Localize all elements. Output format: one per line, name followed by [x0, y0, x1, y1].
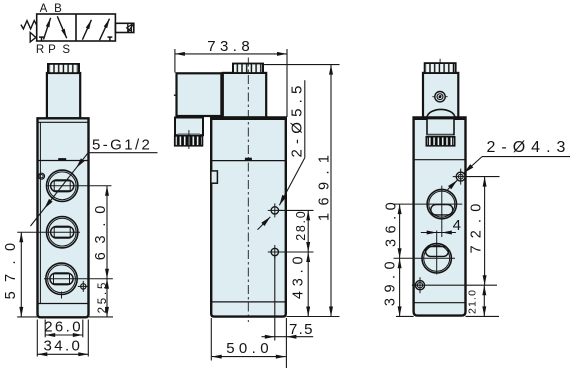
svg-text:P: P	[48, 44, 56, 56]
svg-text:28.0: 28.0	[294, 210, 308, 241]
svg-text:7.5: 7.5	[289, 321, 314, 338]
svg-text:A: A	[40, 3, 48, 15]
svg-text:50.0: 50.0	[226, 340, 273, 357]
svg-text:34.0: 34.0	[44, 338, 83, 355]
svg-text:2-Ø4.3: 2-Ø4.3	[487, 139, 572, 156]
svg-text:72.0: 72.0	[469, 196, 485, 253]
svg-text:39.0: 39.0	[382, 256, 398, 306]
svg-text:63.0: 63.0	[93, 197, 109, 260]
svg-text:B: B	[54, 3, 62, 15]
svg-text:36.0: 36.0	[383, 197, 399, 247]
svg-text:43.0: 43.0	[290, 252, 306, 299]
svg-text:26.0: 26.0	[44, 319, 83, 336]
svg-text:57.0: 57.0	[3, 234, 19, 300]
svg-text:2-Ø5.5: 2-Ø5.5	[289, 80, 306, 157]
svg-text:4: 4	[453, 217, 464, 234]
svg-text:21.0: 21.0	[466, 289, 478, 314]
svg-text:R: R	[36, 44, 44, 56]
svg-text:S: S	[62, 44, 70, 56]
svg-text:73.8: 73.8	[207, 38, 254, 55]
svg-text:169.1: 169.1	[316, 148, 332, 221]
svg-text:5-G1/2: 5-G1/2	[92, 136, 152, 153]
svg-text:25.5: 25.5	[97, 280, 109, 314]
